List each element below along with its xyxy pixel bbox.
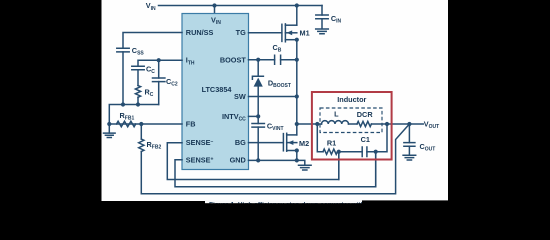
svg-text:L: L bbox=[334, 110, 339, 119]
node: SW at rail bbox=[295, 94, 299, 98]
node: M2 source at GND line bbox=[295, 158, 299, 162]
wire: CSS bottom to comp rail bbox=[122, 52, 124, 105]
svg-text:SENSE+: SENSE+ bbox=[186, 155, 214, 164]
node: CB at M1 source rail bbox=[295, 58, 299, 62]
transistor M2 drain stub bbox=[287, 134, 297, 136]
capacitor CVINT bbox=[252, 124, 264, 128]
wire: ITH pin to CC branch bbox=[138, 60, 182, 66]
wire: R1C1 branch left vertical bbox=[317, 124, 323, 152]
node: coil left bbox=[315, 122, 319, 126]
wire: SENSE+ loop bbox=[175, 152, 376, 187]
resistor RFB1 bbox=[117, 121, 136, 127]
wire: INTVCC pin stub bbox=[249, 115, 259, 117]
wire: M1 source rail down through CB, SW, inductor tap to M2 drain bbox=[296, 40, 298, 135]
transistor M1 source stub bbox=[285, 39, 296, 41]
node: BOOST diode tap bbox=[256, 58, 260, 62]
node: coil right bbox=[385, 122, 389, 126]
svg-text:R1: R1 bbox=[327, 138, 336, 147]
wire: SW rail tap to inductor bbox=[297, 123, 322, 125]
transistor M1 channel bar bbox=[284, 24, 286, 42]
black mask right of caption strip bbox=[362, 200, 450, 218]
transistor M2 gate bar bbox=[282, 134, 284, 151]
node: M2 source at rail bbox=[295, 148, 299, 152]
black mask over caption bottom bbox=[199, 203, 450, 218]
transistor M1 gate bar bbox=[281, 24, 283, 41]
svg-text:SENSE−: SENSE− bbox=[186, 138, 214, 147]
svg-text:Inductor: Inductor bbox=[337, 95, 366, 104]
wire: RFB2 bottom to outer loop to VOUT riser bbox=[141, 124, 409, 194]
transistor M2 channel bar bbox=[286, 133, 288, 151]
capacitor CB bbox=[275, 55, 281, 64]
node: CVINT at GND line bbox=[256, 158, 260, 162]
white schematic panel bbox=[102, 0, 449, 201]
svg-text:TG: TG bbox=[236, 28, 246, 37]
wire: RC bottom to comp rail bbox=[137, 97, 139, 104]
wire: CIN bottom lead bbox=[321, 19, 323, 29]
wire: coil to DCR bbox=[349, 123, 358, 125]
diode DBOOST arrow bbox=[254, 78, 263, 87]
capacitor CC bbox=[132, 66, 144, 70]
transistor M2 body stub bbox=[287, 142, 297, 144]
svg-text:BG: BG bbox=[235, 138, 246, 147]
wire: CC2 bottom to comp rail bbox=[158, 82, 160, 105]
wire: DCR to VOUT line bbox=[372, 123, 424, 125]
diode DBOOST cathode bar bbox=[252, 76, 263, 79]
svg-text:C1: C1 bbox=[361, 135, 370, 144]
node: VIN at M1 drain bbox=[295, 3, 299, 7]
svg-text:M2: M2 bbox=[299, 139, 309, 148]
wire: comp network bottom rail bbox=[109, 105, 158, 125]
resistor R1 bbox=[323, 149, 337, 154]
svg-text:LTC3854: LTC3854 bbox=[202, 85, 233, 94]
wire: GND pin line to ground symbol bbox=[249, 160, 305, 165]
wire: CVINT top lead bbox=[257, 116, 259, 123]
svg-text:BOOST: BOOST bbox=[220, 56, 246, 65]
node: R1-C1 sense tap bbox=[337, 150, 341, 154]
capacitor CIN bbox=[316, 15, 328, 19]
capacitor CSS bbox=[117, 48, 129, 52]
resistor RC bbox=[135, 86, 140, 98]
wire: DBOOST cathode drop from BOOST line bbox=[257, 60, 259, 76]
transistor M1 body stub bbox=[285, 32, 296, 34]
node: FB divider mid bbox=[139, 122, 143, 126]
capacitor C1 bbox=[362, 147, 367, 157]
svg-text:RUN/SS: RUN/SS bbox=[186, 28, 214, 37]
svg-text:GND: GND bbox=[230, 155, 246, 164]
wire: FB line bbox=[109, 123, 182, 125]
node: C1 right sense tap bbox=[374, 150, 378, 154]
wire: M2 source to GND line bbox=[296, 151, 298, 161]
ground below CIN bbox=[316, 29, 329, 34]
svg-text:M1: M1 bbox=[300, 29, 310, 38]
transistor M2 source stub bbox=[287, 150, 297, 152]
inductor L coil bbox=[322, 121, 349, 124]
resistor DCR bbox=[357, 121, 371, 126]
node: VIN at IC bbox=[212, 3, 216, 7]
wire: RFB2 top lead bbox=[140, 124, 142, 139]
wire: RUN/SS pin to CSS branch bbox=[123, 33, 182, 49]
capacitor COUT bbox=[404, 143, 415, 147]
wire: COUT bottom lead bbox=[408, 146, 410, 155]
IC U1 LTC3854 body bbox=[182, 14, 249, 170]
wire: CC2 branch from ITH line bbox=[158, 60, 160, 78]
wire: CB right plate to M1 source rail bbox=[281, 59, 297, 61]
svg-text:SW: SW bbox=[234, 92, 246, 101]
wire: CVINT bottom to GND line bbox=[257, 127, 259, 160]
wire: VIN pin drop to IC bbox=[214, 6, 216, 14]
wire: CC bottom to RC top bbox=[137, 70, 139, 86]
wire: C1 right to riser up to coil right node bbox=[367, 124, 387, 152]
svg-text:DCR: DCR bbox=[357, 110, 374, 119]
ground at GND pin bbox=[299, 165, 312, 170]
svg-text:FB: FB bbox=[186, 120, 196, 129]
node: INTVCC at CVINT bbox=[256, 114, 260, 118]
wire: C1 right junction down to SENSE+ loop bbox=[375, 152, 377, 187]
transistor M1 drain stub bbox=[285, 24, 296, 26]
transistor M1 body arrow bbox=[287, 30, 293, 35]
inductor DCR dashed box bbox=[320, 108, 382, 133]
node: CSS at comp rail bbox=[121, 102, 125, 106]
wire: BG pin to M2 gate bbox=[249, 142, 284, 144]
node: inductor tap on rail bbox=[295, 122, 299, 126]
wire: TG pin to M1 gate bbox=[249, 32, 282, 34]
ground below COUT bbox=[403, 155, 416, 160]
wire: R1 to C1 bbox=[338, 151, 363, 153]
wire: CIN drop bbox=[321, 6, 323, 16]
wire: COUT top lead bbox=[408, 124, 410, 143]
node: CC2 tap on ITH line bbox=[157, 58, 161, 62]
node: FB divider ground bbox=[107, 122, 111, 126]
wire: SENSE- loop bbox=[167, 143, 338, 180]
wire: BOOST pin to CB left plate bbox=[249, 59, 275, 61]
node: M1 source at rail bbox=[295, 38, 299, 42]
wire: VIN top rail bbox=[159, 5, 323, 7]
transistor M2 body arrow bbox=[288, 140, 294, 145]
wire: M1 drain to VIN rail bbox=[296, 6, 298, 26]
node: VOUT junction bbox=[407, 122, 411, 126]
wire: SW pin to rail bbox=[249, 96, 297, 98]
capacitor CC2 bbox=[153, 78, 165, 82]
resistor RFB2 bbox=[139, 139, 144, 152]
inductor red highlight box bbox=[312, 92, 392, 160]
wire: ground stub at FB divider bbox=[108, 124, 110, 133]
ground at FB divider bbox=[104, 133, 116, 137]
wire: R1C1 junction down to SENSE- loop bbox=[338, 152, 340, 180]
wire: DBOOST anode to INTVCC line bbox=[257, 86, 259, 116]
node: RC at comp rail bbox=[136, 102, 140, 106]
caption sliver strip bbox=[205, 201, 363, 204]
